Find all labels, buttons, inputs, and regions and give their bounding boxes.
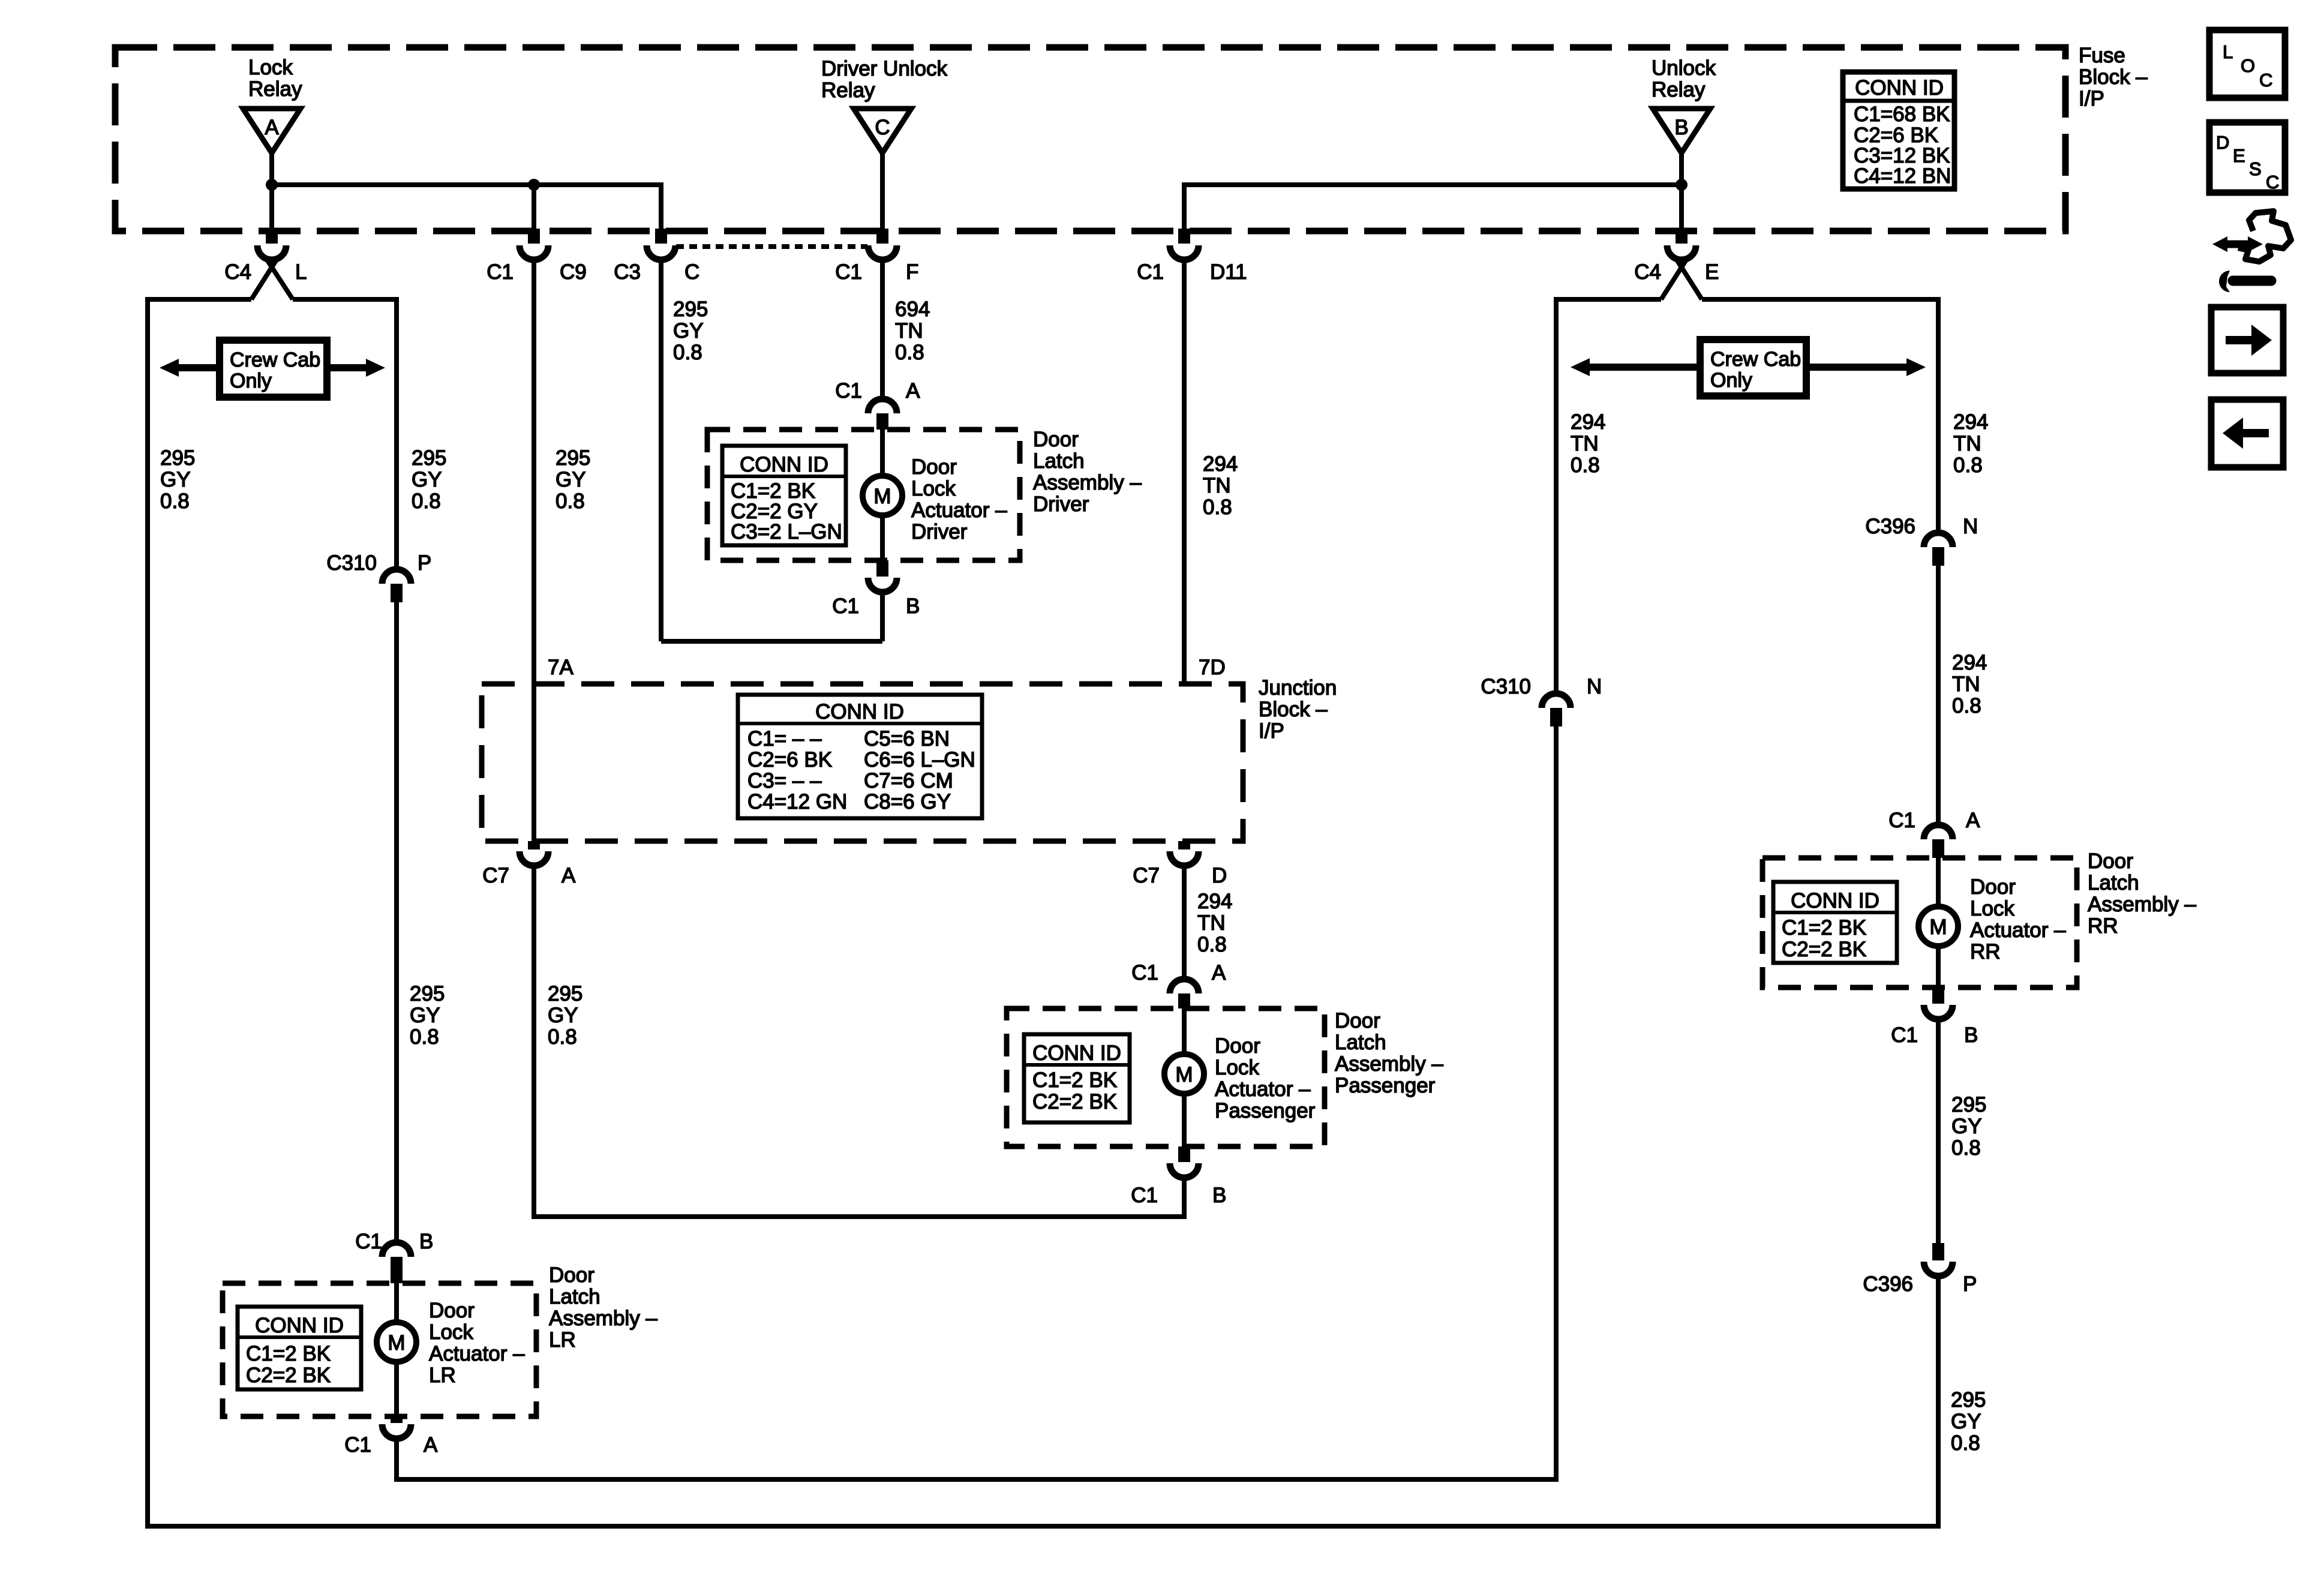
fuse block CONN ID table [1843, 72, 1954, 189]
connector RR latch C1/A [1888, 809, 1980, 858]
wire: A stub to passenger motor [1182, 1008, 1187, 1055]
wire label 295 GY 0.8 (C3 wire) [673, 298, 708, 364]
svg-text:Actuator –: Actuator – [1970, 918, 2066, 942]
svg-text:7D: 7D [1199, 656, 1226, 679]
wire: C7 A down [532, 865, 536, 1219]
wire: passenger motor to box bottom [1182, 1092, 1187, 1146]
svg-text:0.8: 0.8 [1203, 496, 1232, 519]
svg-text:C396: C396 [1863, 1272, 1913, 1296]
wire label 295 GY 0.8 (bottom right) [1951, 1388, 1986, 1455]
svg-text:A: A [265, 116, 279, 139]
svg-text:M: M [873, 485, 891, 508]
wire: bus from A to C3 corner [272, 182, 661, 187]
connector passenger latch C1/B [1131, 1146, 1226, 1207]
svg-text:Door: Door [549, 1263, 594, 1287]
svg-text:C1: C1 [1891, 1023, 1918, 1047]
svg-text:Unlock: Unlock [1652, 56, 1716, 80]
connector C310/P [326, 551, 431, 602]
svg-text:294: 294 [1952, 651, 1987, 674]
right crew arrow left [1571, 358, 1700, 376]
wire label 294 TN 0.8 (below 7D) [1197, 890, 1232, 956]
svg-text:CONN ID: CONN ID [1032, 1041, 1121, 1065]
svg-text:0.8: 0.8 [895, 341, 924, 364]
svg-text:CONN ID: CONN ID [1855, 76, 1944, 100]
svg-text:E: E [1705, 260, 1719, 284]
svg-text:0.8: 0.8 [556, 490, 585, 513]
svg-text:C: C [875, 116, 890, 139]
svg-text:Driver Unlock: Driver Unlock [821, 57, 948, 80]
label Door Lock Actuator Driver [911, 455, 1007, 544]
svg-text:L: L [295, 260, 307, 284]
svg-text:Relay: Relay [1652, 78, 1706, 101]
RR CONN ID table [1773, 882, 1897, 963]
wire: RR motor to box bottom [1936, 945, 1941, 987]
wire: left loop right vertical to C310 P [394, 297, 399, 570]
svg-text:C1: C1 [835, 260, 862, 284]
svg-text:Door: Door [1033, 428, 1079, 451]
svg-text:C4=12 BN: C4=12 BN [1854, 164, 1951, 188]
relay triangle B [1653, 109, 1710, 153]
fuse block I/P dashed box [115, 47, 2065, 231]
svg-text:C2=6 BK: C2=6 BK [747, 748, 832, 772]
wire label 294 TN 0.8 (right loop left) [1571, 410, 1605, 477]
svg-text:A: A [1966, 809, 1980, 832]
driver door latch dashed box [707, 430, 1020, 560]
wire label 295 GY 0.8 (left loop left) [160, 446, 195, 513]
wire label 294 TN 0.8 (below C396 N) [1952, 651, 1987, 718]
svg-text:C3: C3 [614, 260, 641, 284]
svg-text:B: B [1212, 1184, 1226, 1207]
svg-text:295: 295 [1951, 1093, 1986, 1116]
svg-text:C1=2 BK: C1=2 BK [1782, 916, 1866, 939]
relay label: Unlock Relay [1652, 56, 1716, 101]
svg-text:LR: LR [549, 1328, 576, 1352]
svg-text:M: M [388, 1331, 405, 1355]
svg-text:C: C [2259, 70, 2272, 91]
svg-text:0.8: 0.8 [673, 341, 702, 364]
svg-text:Door: Door [911, 455, 957, 479]
svg-text:Lock: Lock [1970, 897, 2014, 920]
svg-text:0.8: 0.8 [412, 490, 441, 513]
svg-text:A: A [1212, 961, 1226, 984]
caption Door Latch Assembly LR [549, 1263, 657, 1352]
wire: relay A to bus [269, 153, 274, 229]
junction block I/P dashed box [482, 684, 1243, 841]
svg-text:E: E [2233, 145, 2245, 166]
svg-text:B: B [906, 595, 920, 618]
wire: C9 through junction block [532, 259, 536, 841]
wire label 694 TN 0.8 (F wire) [895, 298, 930, 364]
wire: C310 N down [1554, 727, 1559, 1482]
svg-text:Only: Only [230, 370, 272, 392]
svg-text:D: D [1212, 864, 1227, 887]
svg-text:N: N [1963, 515, 1978, 538]
wire: left loop left vertical [145, 297, 150, 1529]
left crew arrow left [160, 359, 220, 377]
svg-text:694: 694 [895, 298, 930, 321]
svg-text:Latch: Latch [1033, 449, 1085, 473]
svg-text:Driver: Driver [911, 520, 968, 544]
left crew arrow right [327, 359, 385, 377]
svg-text:294: 294 [1953, 410, 1988, 434]
wire: A stub to motor [880, 430, 885, 477]
connector C4/E [1634, 229, 1719, 284]
label Door Lock Actuator RR [1970, 875, 2066, 963]
svg-text:F: F [906, 260, 918, 284]
wire: LR motor to box bottom [394, 1361, 399, 1416]
wire: driver loop bottom [661, 639, 882, 644]
wire: fishtail below C4/E [1661, 260, 1686, 299]
LR door latch dashed box [223, 1283, 536, 1416]
connector C3/C [614, 229, 699, 284]
icon LOC box [2209, 30, 2285, 98]
wire: relay C down to connector F [880, 153, 885, 229]
wire: bus from D11 corner to B [1184, 182, 1682, 187]
svg-text:A: A [424, 1433, 438, 1457]
wire: C3 wire down [659, 259, 663, 641]
svg-text:Door: Door [1215, 1034, 1260, 1058]
svg-text:295: 295 [160, 446, 195, 470]
wire: relay B down to connector E [1679, 153, 1684, 229]
svg-text:294: 294 [1203, 452, 1238, 476]
svg-text:B: B [419, 1230, 433, 1253]
svg-text:GY: GY [1951, 1410, 1981, 1433]
svg-text:0.8: 0.8 [160, 490, 190, 513]
svg-text:Latch: Latch [1335, 1031, 1386, 1054]
connector LR latch C1/A [344, 1416, 438, 1457]
wire label 294 TN 0.8 (right loop right) [1953, 410, 1988, 477]
connector RR latch C1/B [1891, 987, 1978, 1047]
svg-text:0.8: 0.8 [410, 1025, 439, 1049]
svg-text:C1: C1 [344, 1433, 371, 1457]
svg-text:CONN ID: CONN ID [1791, 889, 1879, 912]
driver CONN ID table [722, 446, 846, 545]
passenger door latch dashed box [1007, 1008, 1325, 1146]
svg-text:0.8: 0.8 [1571, 454, 1600, 477]
svg-text:GY: GY [1951, 1115, 1982, 1138]
svg-text:Passenger: Passenger [1335, 1074, 1436, 1097]
node: bus junction at A [266, 179, 278, 191]
svg-text:C1=2 BK: C1=2 BK [1032, 1068, 1117, 1092]
svg-text:RR: RR [1970, 940, 2001, 963]
wire label 295 GY 0.8 (lower LR) [410, 982, 445, 1049]
svg-text:TN: TN [1953, 432, 1981, 455]
dotted jumper C to F [676, 244, 867, 249]
svg-text:P: P [1963, 1272, 1977, 1296]
svg-text:C2=2 BK: C2=2 BK [1032, 1090, 1117, 1113]
connector C1/C9 [487, 229, 587, 284]
svg-text:295: 295 [1951, 1388, 1986, 1412]
wire: right loop left vertical to C310 N [1554, 297, 1559, 694]
connector passenger latch C1/A [1131, 961, 1226, 1008]
svg-text:TN: TN [895, 319, 923, 343]
svg-text:Crew Cab: Crew Cab [1710, 348, 1801, 371]
svg-text:CONN ID: CONN ID [815, 700, 904, 724]
svg-text:I/P: I/P [1259, 719, 1284, 743]
svg-text:A: A [562, 864, 576, 887]
svg-text:295: 295 [673, 298, 708, 321]
svg-text:Actuator –: Actuator – [1215, 1077, 1311, 1101]
svg-text:Assembly –: Assembly – [1335, 1052, 1443, 1076]
connector junction C7/A [482, 841, 576, 887]
svg-text:Fuse: Fuse [2079, 44, 2125, 67]
wire: C310 P to LR latch B [394, 602, 399, 1243]
wire: C396 P down to bottom bus [1936, 1275, 1941, 1529]
connector C396/P [1863, 1243, 1977, 1296]
caption Door Latch Assembly Passenger [1335, 1009, 1443, 1097]
svg-text:C1: C1 [835, 379, 862, 403]
relay label: Driver Unlock Relay [821, 57, 948, 102]
svg-text:C1= – –: C1= – – [747, 727, 822, 751]
icon route with wrench [2212, 211, 2291, 292]
RR door latch dashed box [1762, 858, 2077, 987]
svg-text:GY: GY [673, 319, 704, 343]
svg-text:Assembly –: Assembly – [2088, 893, 2196, 916]
connector C396/N [1865, 515, 1978, 566]
wire: right loop top-left segment [1554, 297, 1661, 302]
wire: corner down to C3 connector [659, 182, 663, 229]
svg-text:C9: C9 [560, 260, 587, 284]
right crew arrow right [1806, 358, 1926, 376]
wire: left loop top-left segment [145, 297, 251, 302]
svg-text:O: O [2241, 55, 2255, 76]
svg-text:C1=68 BK: C1=68 BK [1854, 103, 1950, 126]
wire: C9 tap down [532, 185, 536, 229]
svg-text:Actuator –: Actuator – [911, 499, 1007, 522]
svg-text:N: N [1587, 675, 1602, 698]
svg-text:Crew Cab: Crew Cab [230, 349, 320, 371]
svg-text:0.8: 0.8 [1953, 454, 1983, 477]
relay label: Lock Relay [248, 56, 302, 101]
svg-text:C4: C4 [224, 260, 251, 284]
svg-text:B: B [1964, 1023, 1978, 1047]
svg-text:C7: C7 [482, 864, 509, 887]
connector driver latch C1/A [835, 379, 920, 430]
wire: bottom bus [145, 1524, 1941, 1529]
svg-text:C1: C1 [1888, 809, 1915, 832]
svg-text:Block –: Block – [1259, 698, 1328, 721]
svg-text:CONN ID: CONN ID [740, 453, 828, 476]
svg-text:GY: GY [556, 468, 586, 491]
svg-text:CONN ID: CONN ID [255, 1314, 344, 1337]
svg-text:Assembly –: Assembly – [549, 1307, 657, 1330]
svg-text:C8=6 GY: C8=6 GY [864, 790, 951, 813]
svg-text:S: S [2249, 158, 2262, 179]
svg-text:GY: GY [160, 468, 191, 491]
svg-text:295: 295 [556, 446, 590, 470]
svg-text:Block –: Block – [2079, 65, 2148, 89]
svg-text:Assembly –: Assembly – [1033, 471, 1142, 494]
wire: A stub to RR motor [1936, 858, 1941, 908]
svg-text:TN: TN [1952, 673, 1980, 696]
svg-text:Relay: Relay [248, 77, 302, 101]
svg-text:0.8: 0.8 [1951, 1136, 1981, 1160]
svg-text:TN: TN [1197, 911, 1226, 935]
svg-text:Passenger: Passenger [1215, 1099, 1316, 1122]
svg-text:C1: C1 [832, 595, 859, 618]
svg-text:C310: C310 [326, 551, 377, 575]
wire label 295 GY 0.8 (lower C9) [548, 982, 582, 1049]
wire: D11 down to junction block [1182, 259, 1187, 684]
junction block caption [1259, 676, 1337, 743]
svg-text:C1: C1 [1131, 961, 1158, 984]
connector LR latch C1/B [355, 1230, 433, 1283]
svg-text:C396: C396 [1865, 515, 1915, 538]
svg-text:295: 295 [412, 446, 446, 470]
svg-text:C310: C310 [1481, 675, 1531, 698]
node: bus junction at B [1676, 179, 1688, 191]
LR CONN ID table [238, 1307, 361, 1389]
relay triangle A [243, 109, 301, 153]
wire: right loop top-right segment [1702, 297, 1941, 302]
svg-text:D: D [2216, 132, 2229, 153]
svg-text:C4=12 GN: C4=12 GN [747, 790, 847, 813]
svg-text:C5=6 BN: C5=6 BN [864, 727, 950, 751]
svg-text:B: B [1674, 116, 1688, 139]
svg-text:I/P: I/P [2079, 87, 2104, 110]
svg-text:295: 295 [410, 982, 445, 1005]
svg-text:Latch: Latch [2088, 871, 2139, 894]
svg-text:C3=2 L–GN: C3=2 L–GN [731, 520, 842, 544]
relay triangle C [854, 109, 911, 153]
wire: RR B down to C396 P [1936, 1019, 1941, 1243]
svg-text:P: P [418, 551, 431, 575]
connector C1/D11 [1137, 229, 1247, 284]
connector driver latch C1/B [832, 560, 920, 618]
caption Door Latch Assembly RR [2088, 849, 2196, 938]
svg-text:A: A [906, 379, 920, 403]
label Door Lock Actuator Passenger [1215, 1034, 1316, 1122]
svg-text:0.8: 0.8 [1197, 933, 1227, 956]
svg-text:C1=2 BK: C1=2 BK [246, 1342, 331, 1365]
svg-text:Lock: Lock [248, 56, 293, 79]
svg-text:GY: GY [410, 1004, 440, 1027]
svg-text:7A: 7A [548, 656, 574, 679]
svg-text:295: 295 [548, 982, 582, 1005]
svg-text:C3= – –: C3= – – [747, 769, 822, 792]
svg-text:Door: Door [1335, 1009, 1380, 1032]
wire: corner down to D11 connector [1182, 182, 1187, 229]
wire: C7 D down to passenger latch [1182, 865, 1187, 981]
svg-text:C1: C1 [355, 1230, 382, 1253]
svg-text:0.8: 0.8 [548, 1025, 577, 1049]
svg-text:C2=2 BK: C2=2 BK [246, 1364, 331, 1387]
svg-text:GY: GY [412, 468, 442, 491]
svg-text:C6=6 L–GN: C6=6 L–GN [864, 748, 975, 772]
svg-text:294: 294 [1197, 890, 1232, 913]
wire: passenger loop bottom [534, 1214, 1184, 1219]
icon DESC box [2209, 122, 2285, 193]
svg-text:C2=2 BK: C2=2 BK [1782, 938, 1866, 961]
wire: F to driver latch A [880, 259, 885, 401]
wire label 295 GY 0.8 (C9 wire) [556, 446, 590, 513]
connector C1/F [835, 229, 918, 284]
svg-text:C7: C7 [1133, 864, 1160, 887]
caption Door Latch Assembly Driver [1033, 428, 1142, 516]
svg-text:TN: TN [1571, 432, 1599, 455]
svg-text:C: C [684, 260, 699, 284]
svg-text:Actuator –: Actuator – [429, 1342, 525, 1365]
right Crew Cab Only box [1700, 340, 1806, 396]
wire: motor to box bottom [880, 514, 885, 560]
svg-text:Relay: Relay [821, 79, 875, 102]
wire label 295 GY 0.8 (left loop right) [412, 446, 446, 513]
svg-text:0.8: 0.8 [1951, 1431, 1980, 1455]
svg-text:Junction: Junction [1259, 676, 1337, 700]
svg-text:Only: Only [1710, 369, 1752, 392]
wire: fishtail below C4/L [251, 260, 277, 299]
connector junction C7/D [1133, 841, 1227, 887]
icon left-arrow box [2211, 400, 2283, 467]
passenger CONN ID table [1024, 1034, 1130, 1122]
connector C4/L [224, 229, 307, 284]
svg-text:Door: Door [1970, 875, 2016, 899]
wire label 295 GY 0.8 (below RR B) [1951, 1093, 1986, 1160]
motor M driver [863, 476, 902, 515]
fuse block caption [2079, 44, 2148, 110]
svg-text:Lock: Lock [911, 477, 956, 500]
wire: right loop right vertical to C396 N [1936, 297, 1941, 533]
motor M RR [1918, 906, 1958, 946]
wire: up to passenger latch B [1182, 1177, 1187, 1219]
svg-text:0.8: 0.8 [1952, 694, 1981, 718]
svg-text:Lock: Lock [429, 1320, 473, 1344]
svg-text:294: 294 [1571, 410, 1605, 434]
label Door Lock Actuator LR [429, 1299, 525, 1387]
svg-text:C1: C1 [1131, 1184, 1158, 1207]
motor M passenger [1164, 1054, 1204, 1094]
wire: B stub to LR motor [394, 1283, 399, 1323]
svg-text:Lock: Lock [1215, 1056, 1259, 1079]
svg-text:C: C [2266, 172, 2279, 193]
wire: left loop top-right segment [293, 297, 399, 302]
svg-text:C1: C1 [1137, 260, 1164, 284]
svg-text:C4: C4 [1634, 260, 1661, 284]
svg-text:Driver: Driver [1033, 493, 1089, 516]
svg-text:D11: D11 [1210, 260, 1247, 284]
svg-text:Latch: Latch [549, 1285, 600, 1308]
svg-text:C7=6 CM: C7=6 CM [864, 769, 953, 792]
svg-text:M: M [1175, 1063, 1193, 1086]
icon right-arrow box [2211, 307, 2283, 373]
svg-text:C1: C1 [487, 260, 514, 284]
wire: C396 N to RR latch A [1936, 566, 1941, 827]
svg-text:Door: Door [429, 1299, 475, 1322]
svg-text:Door: Door [2088, 849, 2133, 873]
wire: up to driver latch B [880, 592, 885, 641]
node: C9 tap [528, 179, 540, 191]
svg-text:TN: TN [1203, 474, 1231, 497]
svg-text:GY: GY [548, 1004, 578, 1027]
svg-text:M: M [1929, 915, 1947, 939]
svg-text:RR: RR [2088, 914, 2118, 938]
svg-text:LR: LR [429, 1364, 456, 1387]
connector C310/N [1481, 675, 1602, 727]
wire label 294 TN 0.8 (D11 wire) [1203, 452, 1238, 519]
left Crew Cab Only box [220, 340, 327, 397]
junction CONN ID table [738, 695, 982, 818]
motor M LR [377, 1322, 416, 1362]
svg-text:L: L [2223, 41, 2233, 62]
wire: LR A down and right to C310 N [397, 1437, 1559, 1479]
